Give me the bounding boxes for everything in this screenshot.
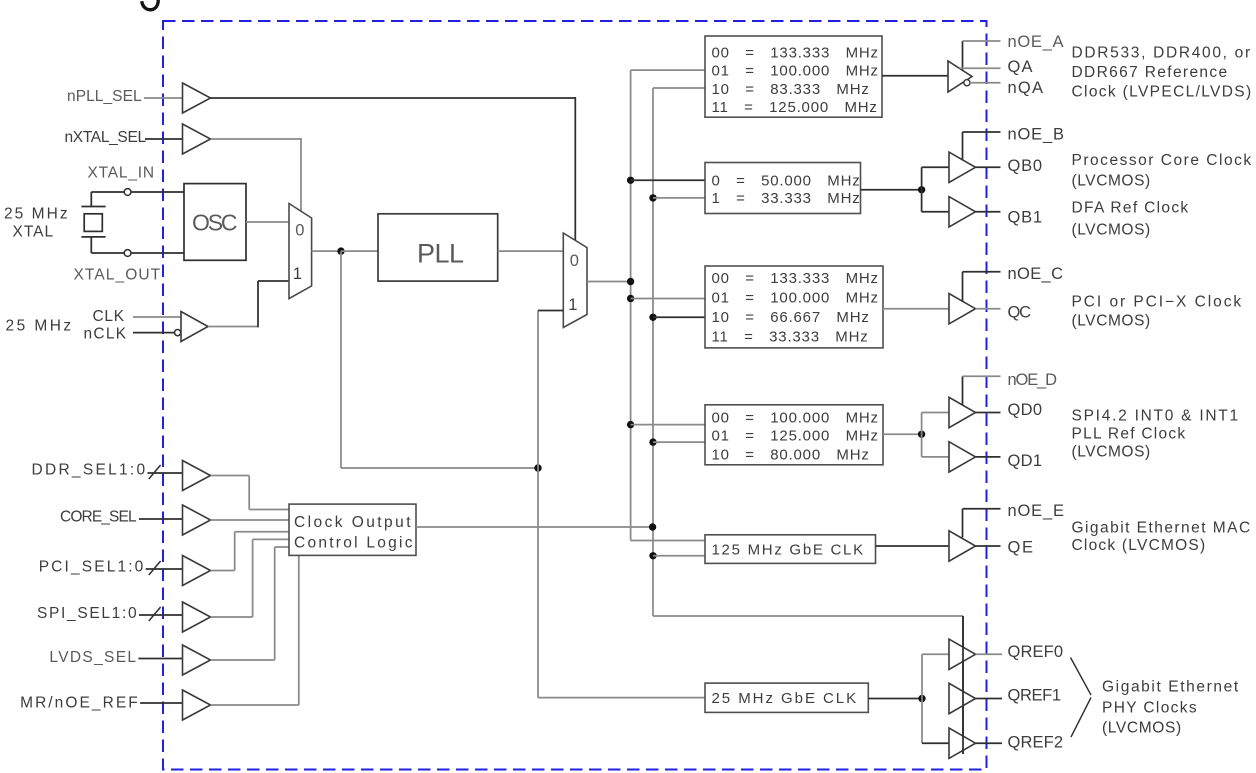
- junction bus feed B0: [627, 177, 634, 184]
- wire nOE_C enable: [962, 272, 964, 302]
- chip boundary dashed box: [163, 21, 987, 770]
- frequency table box D: [705, 405, 883, 465]
- wire MR/nOE_REF stub: [140, 702, 182, 704]
- svg-text:CLK: CLK: [93, 308, 125, 325]
- wire OSC to mux1: [246, 221, 289, 223]
- wire nXTAL_SEL to mux1 select: [211, 138, 302, 140]
- wire SPI_SEL to control logic: [211, 616, 253, 618]
- wire PCI_SEL to control logic: [211, 570, 235, 572]
- svg-text:nOE_A: nOE_A: [1008, 33, 1065, 51]
- wire CLK: [133, 316, 181, 318]
- svg-text:Processor Core Clock: Processor Core Clock: [1072, 152, 1252, 169]
- buffer SPI_SEL1:0: [183, 602, 211, 632]
- svg-text:nXTAL_SEL: nXTAL_SEL: [65, 129, 147, 146]
- svg-text:MR/nOE_REF: MR/nOE_REF: [20, 695, 138, 712]
- wire bypass to mux2 input1: [538, 310, 563, 312]
- wire CORE_SEL stub: [139, 518, 183, 520]
- wire feed C row2: [631, 298, 705, 300]
- bubble nQA: [964, 80, 970, 86]
- svg-text:01 = 100.000 MHz: 01 = 100.000 MHz: [712, 62, 879, 79]
- wire QC out: [976, 308, 1001, 310]
- svg-text:QREF0: QREF0: [1008, 643, 1064, 661]
- frequency box 125 MHz GbE CLK: [705, 535, 876, 564]
- wire nQA out: [970, 82, 1001, 84]
- buffer CORE_SEL: [183, 505, 211, 535]
- bus line B (x=653): [652, 88, 654, 616]
- buffer LVDS_SEL: [183, 645, 211, 675]
- junction bus feed E: [649, 552, 656, 559]
- PLL box U1: [378, 214, 498, 281]
- pin circle XTAL_IN: [124, 189, 131, 196]
- wire QB1 out: [976, 211, 1001, 213]
- wire QD1 out: [976, 456, 1001, 458]
- svg-text:nOE_E: nOE_E: [1008, 502, 1065, 520]
- svg-text:PCI_SEL1:0: PCI_SEL1:0: [39, 559, 144, 576]
- bus-width slash PCI_SEL1:0: [149, 561, 161, 575]
- svg-text:Gigabit Ethernet: Gigabit Ethernet: [1102, 679, 1239, 696]
- svg-text:11 = 33.333 MHz: 11 = 33.333 MHz: [712, 329, 869, 346]
- bus-width slash SPI_SEL1:0: [149, 607, 161, 621]
- svg-text:QC: QC: [1008, 303, 1032, 321]
- wire QD0 out: [976, 412, 1001, 414]
- wire QREF1 out: [976, 698, 1003, 700]
- wire PCI_SEL1:0 stub: [146, 568, 183, 570]
- svg-text:XTAL_IN: XTAL_IN: [88, 165, 155, 182]
- buffer MR/nOE_REF: [183, 690, 211, 720]
- buffer nXTAL_SEL: [183, 124, 211, 154]
- svg-text:Clock (LVCMOS): Clock (LVCMOS): [1072, 537, 1206, 554]
- svg-text:nOE_B: nOE_B: [1008, 126, 1065, 144]
- wire mux2 out: [587, 281, 631, 283]
- svg-text:nPLL_SEL: nPLL_SEL: [67, 88, 142, 105]
- svg-text:PCI or PCI−X Clock: PCI or PCI−X Clock: [1072, 294, 1242, 311]
- wire feed D row1: [631, 424, 705, 426]
- wire nXTAL_SEL stub: [145, 138, 183, 140]
- svg-text:1: 1: [568, 296, 578, 314]
- wire feed B row2: [653, 197, 705, 199]
- mux M2: [563, 233, 587, 328]
- wire QB0 out: [976, 166, 1001, 168]
- frequency table box B: [705, 163, 861, 214]
- wire DDR_SEL1:0 stub: [148, 472, 183, 474]
- svg-text:PHY Clocks: PHY Clocks: [1102, 700, 1197, 717]
- wire reference bypass down: [340, 251, 342, 468]
- buffer QE: [949, 531, 976, 561]
- svg-text:0: 0: [570, 252, 580, 270]
- svg-text:XTAL_OUT: XTAL_OUT: [74, 267, 161, 284]
- frequency box 25 MHz GbE CLK: [705, 683, 868, 712]
- wire QREF enable riser overlay: [962, 616, 964, 754]
- svg-text:QB1: QB1: [1008, 208, 1043, 226]
- wire control logic out: [416, 526, 653, 528]
- buffer QB1: [949, 197, 976, 227]
- svg-text:QREF2: QREF2: [1008, 733, 1064, 751]
- control logic box: [289, 504, 416, 555]
- svg-text:(LVCMOS): (LVCMOS): [1072, 173, 1151, 190]
- junction bus feed D0: [627, 421, 634, 428]
- crystal X1 plates: [81, 206, 105, 208]
- wire LVDS_SEL to control logic: [211, 659, 275, 661]
- svg-text:Gigabit Ethernet MAC: Gigabit Ethernet MAC: [1072, 520, 1251, 537]
- bus line A (x=630): [630, 70, 632, 540]
- svg-text:QE: QE: [1008, 538, 1034, 556]
- wire D branch: [921, 413, 923, 457]
- svg-text:SPI_SEL1:0: SPI_SEL1:0: [37, 605, 137, 622]
- svg-text:QD1: QD1: [1008, 452, 1043, 470]
- bus-width slash DDR_SEL1:0: [149, 465, 161, 479]
- junction bus feed C1: [649, 314, 656, 321]
- junction QREF branch: [918, 695, 925, 702]
- wire nOE_B enable: [962, 132, 964, 161]
- svg-text:nOE_D: nOE_D: [1008, 371, 1058, 389]
- junction mux1 out: [337, 247, 344, 254]
- junction B branch: [918, 186, 925, 193]
- wire QE out: [976, 545, 1001, 547]
- svg-text:DFA Ref Clock: DFA Ref Clock: [1072, 200, 1189, 217]
- wire box C out: [883, 308, 949, 310]
- junction mux2 output node: [627, 278, 634, 285]
- buffer QREF2: [949, 728, 976, 758]
- svg-text:25 MHz: 25 MHz: [4, 206, 68, 223]
- wire nOE_A enable: [962, 41, 964, 71]
- brace PHY clocks: [1071, 658, 1092, 738]
- svg-text:00 = 100.000 MHz: 00 = 100.000 MHz: [712, 409, 879, 426]
- wire box E out: [876, 545, 950, 547]
- wire CORE_SEL to control logic: [211, 519, 290, 521]
- wire feed C row3: [653, 316, 705, 318]
- svg-text:LVDS_SEL: LVDS_SEL: [49, 649, 136, 666]
- svg-text:Clock (LVPECL/LVDS): Clock (LVPECL/LVDS): [1072, 84, 1252, 101]
- svg-text:10 = 83.333 MHz: 10 = 83.333 MHz: [712, 81, 870, 98]
- svg-text:1: 1: [293, 265, 303, 283]
- buffer CLK/nCLK: [181, 312, 208, 342]
- wire XTAL_OUT: [91, 252, 184, 254]
- wire QREF0 out: [976, 653, 1003, 655]
- svg-text:QD0: QD0: [1008, 401, 1043, 419]
- svg-text:nCLK: nCLK: [84, 326, 127, 343]
- wire nOE_E enable: [962, 509, 964, 538]
- wire feed D row2: [653, 441, 705, 443]
- buffer QREF1: [949, 683, 976, 713]
- wire reference bypass across: [341, 467, 538, 469]
- wire QA out: [960, 67, 1001, 69]
- svg-text:125 MHz GbE CLK: 125 MHz GbE CLK: [712, 542, 864, 559]
- svg-text:XTAL: XTAL: [13, 224, 54, 241]
- wire CLK buffer to mux1 input1: [208, 326, 258, 328]
- svg-text:nQA: nQA: [1008, 79, 1044, 97]
- pin circle XTAL_OUT: [124, 250, 131, 257]
- buffer QB0: [949, 152, 976, 182]
- wire PLL out to mux2: [498, 250, 564, 252]
- junction control logic: [649, 523, 656, 530]
- svg-text:(LVCMOS): (LVCMOS): [1072, 313, 1151, 330]
- svg-text:QA: QA: [1008, 58, 1034, 76]
- wire box 25MHz out: [868, 698, 922, 700]
- buffer QREF0: [949, 639, 976, 669]
- wire XTAL_IN: [91, 191, 184, 193]
- svg-text:OSC: OSC: [192, 210, 238, 236]
- svg-text:25 MHz: 25 MHz: [6, 318, 72, 335]
- buffer QD0: [949, 397, 976, 427]
- wire QREF branch: [921, 654, 923, 743]
- wire feed B row1: [631, 179, 705, 181]
- svg-text:CORE_SEL: CORE_SEL: [60, 509, 137, 526]
- svg-text:0: 0: [295, 221, 305, 239]
- svg-text:nOE_C: nOE_C: [1008, 265, 1064, 283]
- wire bypass riser: [537, 311, 539, 698]
- buffer nPLL_SEL: [183, 83, 211, 113]
- svg-text:QB0: QB0: [1008, 157, 1043, 175]
- crystal X1 leads: [90, 192, 92, 207]
- oscillator OSC box: [184, 184, 246, 261]
- bubble nCLK input: [175, 330, 181, 336]
- buffer QC: [949, 294, 976, 324]
- svg-text:10 = 80.000 MHz: 10 = 80.000 MHz: [712, 446, 870, 463]
- wire bypass to 25MHz box: [538, 697, 705, 699]
- wire SPI_SEL1:0 stub: [139, 614, 183, 616]
- buffer QA/nQA: [948, 61, 972, 92]
- wire DDR_SEL to control logic: [211, 475, 250, 477]
- svg-text:(LVCMOS): (LVCMOS): [1072, 222, 1151, 239]
- wire box A out: [882, 75, 948, 77]
- svg-text:PLL: PLL: [417, 239, 465, 269]
- buffer PCI_SEL1:0: [183, 556, 211, 586]
- svg-text:(LVCMOS): (LVCMOS): [1072, 444, 1151, 461]
- wire box D out: [883, 433, 922, 435]
- title descender (partial letter g of cropped caption): [142, 0, 159, 10]
- buffer QD1: [949, 442, 976, 472]
- svg-text:DDR667 Reference: DDR667 Reference: [1072, 64, 1228, 81]
- svg-text:00 = 133.333 MHz: 00 = 133.333 MHz: [712, 270, 879, 287]
- svg-text:PLL Ref Clock: PLL Ref Clock: [1072, 426, 1186, 443]
- mux M1: [289, 204, 312, 299]
- svg-text:Control Logic: Control Logic: [294, 534, 413, 551]
- wire nCLK: [133, 332, 174, 334]
- junction bypass tee: [534, 464, 541, 471]
- wire mux1 out: [312, 250, 341, 252]
- junction bus feed D1: [649, 438, 656, 445]
- frequency table box A: [705, 36, 882, 117]
- svg-text:01 = 125.000 MHz: 01 = 125.000 MHz: [712, 427, 879, 444]
- junction bus feed C0: [627, 295, 634, 302]
- svg-text:11 = 125.000 MHz: 11 = 125.000 MHz: [712, 99, 878, 116]
- frequency table box C: [705, 266, 883, 348]
- buffer DDR_SEL1:0: [183, 461, 211, 491]
- wire nPLL_SEL to mux2 select: [211, 97, 576, 99]
- wire nOE_D enable: [962, 376, 964, 405]
- svg-text:DDR_SEL1:0: DDR_SEL1:0: [32, 462, 146, 479]
- wire bus B to QREF riser: [653, 615, 963, 617]
- crystal X1 body: [84, 214, 102, 232]
- wire QREF enable riser: [962, 616, 964, 754]
- svg-text:DDR533, DDR400, or: DDR533, DDR400, or: [1072, 45, 1251, 62]
- wire mux1 out to PLL: [341, 250, 378, 252]
- junction bus feed B1: [649, 194, 656, 201]
- svg-text:10 = 66.667 MHz: 10 = 66.667 MHz: [712, 309, 870, 326]
- wire LVDS_SEL stub: [138, 658, 182, 660]
- wire feed 125MHz row: [653, 555, 705, 557]
- svg-text:1 = 33.333 MHz: 1 = 33.333 MHz: [712, 190, 861, 207]
- wire nPLL_SEL stub: [144, 97, 183, 99]
- svg-text:0 = 50.000 MHz: 0 = 50.000 MHz: [712, 173, 861, 190]
- wire B branch: [921, 167, 923, 212]
- svg-text:(LVCMOS): (LVCMOS): [1102, 720, 1182, 737]
- wire MR/nOE_REF to control logic: [211, 704, 299, 706]
- svg-text:QREF1: QREF1: [1008, 687, 1062, 705]
- svg-text:01 = 100.000 MHz: 01 = 100.000 MHz: [712, 289, 879, 306]
- svg-text:00 = 133.333 MHz: 00 = 133.333 MHz: [712, 44, 879, 61]
- wire QREF2 out: [976, 742, 1003, 744]
- junction D branch: [918, 431, 925, 438]
- svg-text:SPI4.2 INT0 & INT1: SPI4.2 INT0 & INT1: [1072, 408, 1239, 425]
- wire box B out: [861, 189, 922, 191]
